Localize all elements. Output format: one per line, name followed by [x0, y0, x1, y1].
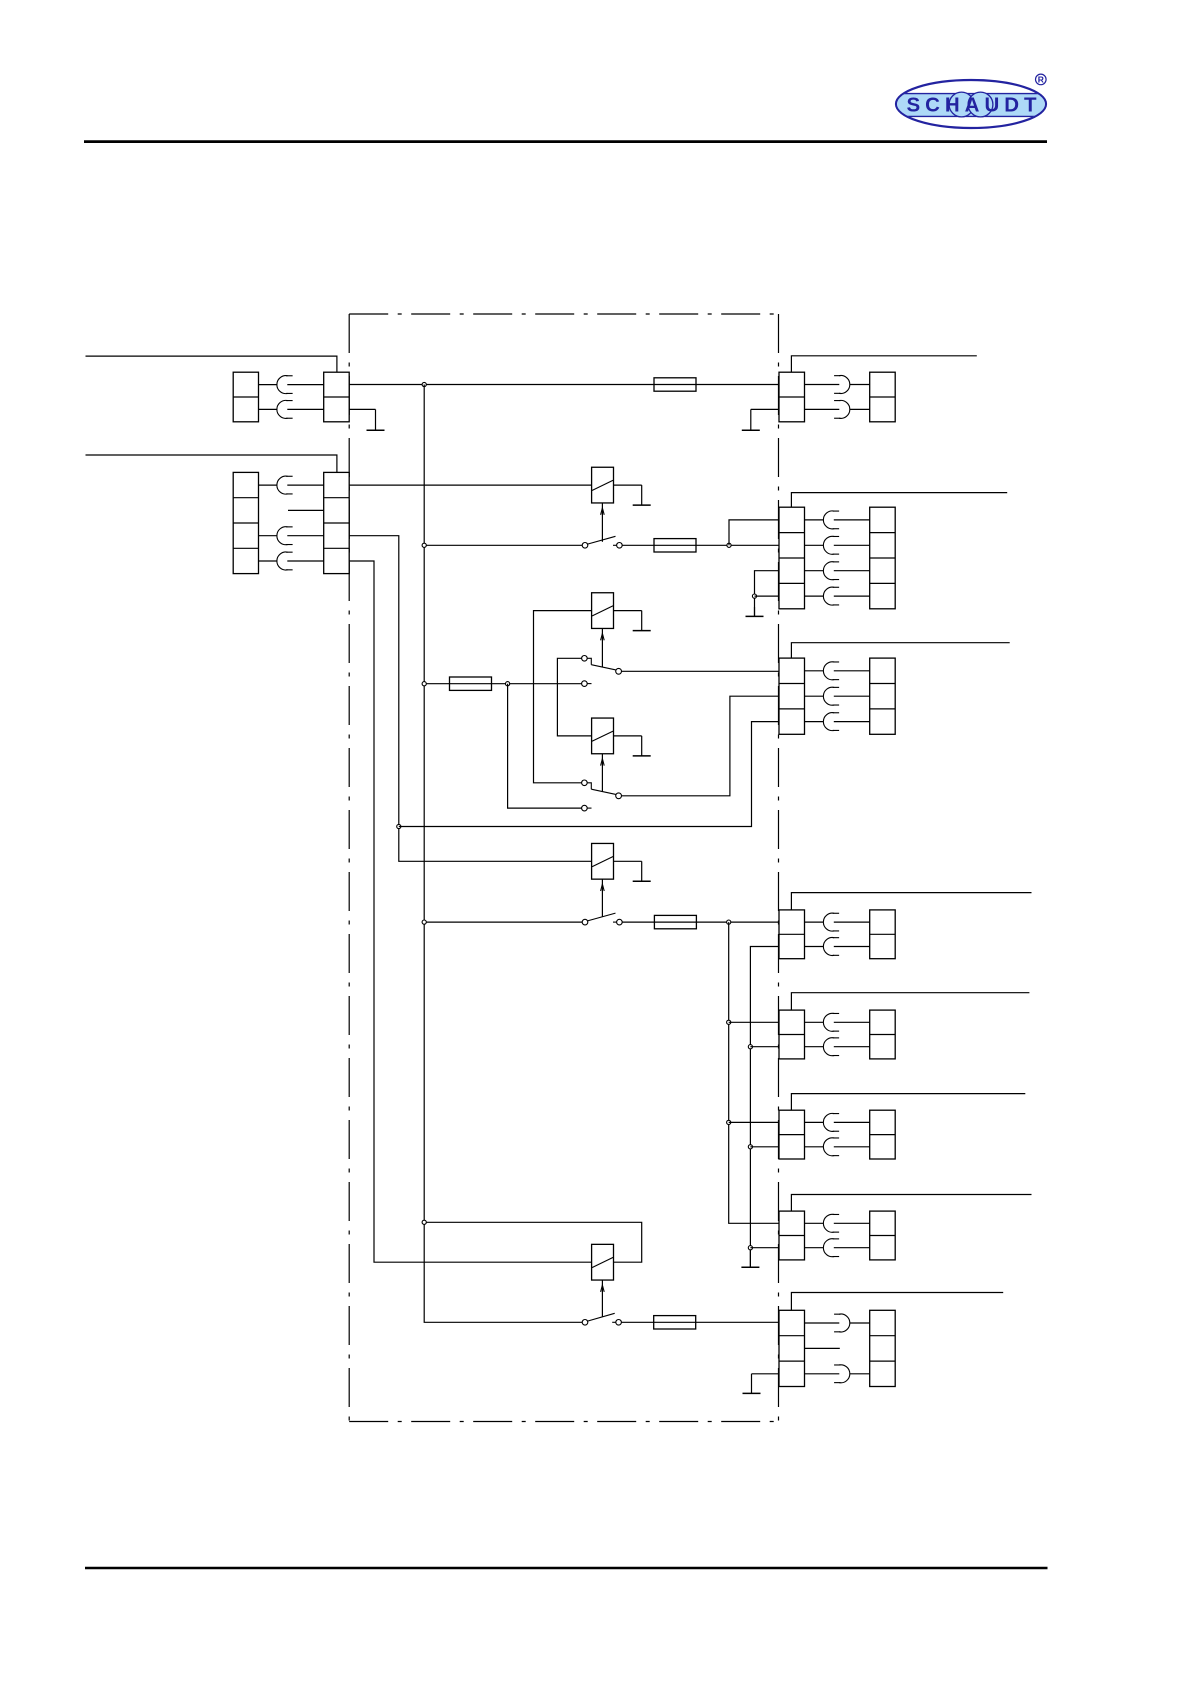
node R2 pin1 tap [727, 543, 731, 547]
wire L2 pin3 riser [349, 536, 591, 862]
connector R5 header on enclosure [779, 1010, 805, 1059]
connector R5 plug housing [870, 1010, 896, 1059]
fuse F4 [654, 915, 696, 928]
changeover switch S3 [582, 780, 622, 811]
wire R7 pin1 lead [805, 1222, 824, 1224]
socket contact R1 pin2 [834, 400, 850, 418]
wire R5 pin1 branch [729, 1021, 779, 1023]
connector R2 plug housing [870, 507, 896, 609]
wire R4 pin2 lead [805, 946, 824, 948]
pin contact R8 pin1 [805, 1322, 840, 1324]
node main bus tap [422, 382, 426, 386]
socket contact L2 pin3 [277, 527, 293, 545]
socket contact R8 pin1 [834, 1314, 850, 1332]
pin contact R5 pin2 [834, 1046, 870, 1048]
wire connector R1 external feed [791, 356, 976, 372]
socket contact R2 pin3 [823, 562, 839, 580]
wire L2 pin3 plug lead [259, 535, 278, 537]
wire distribution riser 2 [750, 947, 779, 1268]
connector R4 plug housing [870, 910, 896, 959]
socket contact R2 pin2 [823, 536, 839, 554]
wire L2 pin4 riser to relay K4 coil [349, 561, 591, 1262]
ground relay K1 [633, 485, 651, 505]
wire R5 pin2 lead [805, 1046, 824, 1048]
socket contact R3 pin3 [823, 713, 839, 731]
wire connector R7 external line [791, 1195, 1031, 1212]
switch S1 [582, 536, 622, 548]
wire K4 coil return to main riser [424, 1222, 642, 1262]
wire relay K2a coil left to switch S3 upper contact [534, 611, 592, 783]
ground relay K3 [633, 861, 651, 881]
wire connector R2 pin1 drop [729, 520, 779, 545]
socket contact L1 pin2 [277, 400, 293, 418]
footer rule [85, 1567, 1048, 1570]
pin contact R4 pin1 [834, 921, 870, 923]
enclosure border bottom (dash-dot) [349, 1421, 778, 1423]
node riser2 R5 tap [748, 1045, 752, 1049]
pin contact R2 pin2 [834, 544, 870, 546]
relay K3 coil [592, 843, 614, 879]
wire R3 pin2 lead [805, 695, 824, 697]
wire L2 pin4 plug lead [259, 560, 278, 562]
wire bus tap to switch S1 [424, 544, 582, 546]
wire R2 pin4 branch [755, 595, 780, 597]
connector R3 header on enclosure [779, 658, 805, 734]
wire connector R4 external line [791, 893, 1031, 910]
svg-text:R: R [1038, 75, 1044, 85]
pin contact L2 pin2 [288, 509, 324, 511]
node riser1 R5 tap [727, 1020, 731, 1024]
wire main riser [424, 385, 582, 1323]
socket contact R7 pin2 [823, 1239, 839, 1257]
fuse F5 [654, 1316, 696, 1329]
wire riser A to connector R3 pin3 [399, 722, 779, 827]
connector R1 plug housing [870, 372, 896, 422]
wire R8 pin1 to plug [850, 1322, 870, 1324]
pin contact R4 pin2 [834, 946, 870, 948]
connector R7 header on enclosure [779, 1211, 805, 1260]
pin contact R3 pin1 [834, 670, 870, 672]
wire R2 pin4 lead [805, 595, 824, 597]
wire S2 common to connector R3 pin1 [622, 670, 780, 672]
wire connector R6 external line [791, 1094, 1025, 1111]
socket contact R3 pin1 [823, 662, 839, 680]
pin contact R6 pin1 [834, 1121, 870, 1123]
wire R1 pin1 to plug [850, 384, 870, 386]
connector R6 plug housing [870, 1110, 896, 1159]
wire R2 pin1 lead [805, 519, 824, 521]
wire R1 pin2 to plug [850, 408, 870, 410]
pin contact R3 pin2 [834, 695, 870, 697]
actuator link K1-S1 [601, 503, 605, 542]
enclosure border top (dash-dot) [349, 313, 778, 315]
wire L1 pin2 plug lead [259, 408, 278, 410]
wire R7 pin2 branch [750, 1247, 779, 1249]
fuse F3 [450, 677, 492, 690]
pin contact L2 pin3 [287, 535, 323, 537]
socket contact R2 pin4 [823, 587, 839, 605]
wire S2 upper contact to relay K2b coil [557, 658, 591, 736]
ground relay K2b [633, 736, 651, 756]
wire R4 pin1 lead [805, 921, 824, 923]
relay K1 coil [592, 467, 614, 503]
wire S5 to connector R8 pin1 [621, 1321, 779, 1323]
connector L2 plug housing [233, 472, 258, 573]
wire R3 pin3 lead [805, 721, 824, 723]
wire R3 pin1 lead [805, 670, 824, 672]
wire K2b coil to ground [614, 735, 642, 737]
socket contact R4 pin2 [823, 938, 839, 956]
node riser A tap [397, 824, 401, 828]
node bus tap S4 [422, 920, 426, 924]
ground relay K2a [633, 611, 651, 631]
pin contact L1 pin1 [287, 384, 323, 386]
pin contact R2 pin3 [834, 570, 870, 572]
ground R2 [746, 607, 764, 616]
wire feed drop to switch S3 contact [508, 684, 582, 808]
wire R2 pin3 to ground riser [755, 571, 780, 617]
node bus tap S1 feed [422, 543, 426, 547]
wire connector R8 external line [791, 1293, 1003, 1311]
socket contact R4 pin1 [823, 913, 839, 931]
socket contact R1 pin1 [834, 376, 850, 394]
header rule [84, 140, 1047, 143]
wire R6 pin1 branch [729, 1121, 779, 1123]
socket contact R7 pin1 [823, 1214, 839, 1232]
pin contact R1 pin2 [805, 408, 840, 410]
relay K2a coil [592, 593, 614, 629]
changeover switch S2 [582, 656, 622, 687]
wire K1 coil to ground [614, 484, 642, 486]
wire L1 pin1 plug lead [259, 384, 278, 386]
relay K2b coil [592, 718, 614, 754]
wire R2 pin3 lead [805, 570, 824, 572]
socket contact R3 pin2 [823, 687, 839, 705]
wire bus tap to switch S4 [424, 921, 582, 923]
wire L1 pin2 to ground [349, 408, 375, 410]
pin contact R5 pin1 [834, 1021, 870, 1023]
connector R8 header on enclosure [779, 1310, 805, 1386]
pin contact R8 pin2 [805, 1347, 840, 1349]
connector R3 plug housing [870, 658, 896, 734]
wire connector R5 external line [791, 993, 1029, 1010]
actuator link K3-S4 [601, 879, 605, 917]
relay K4 coil [592, 1244, 614, 1280]
node R2 pin4 ground tap [752, 594, 756, 598]
pin contact R1 pin1 [805, 384, 840, 386]
wire R6 pin2 branch [750, 1146, 779, 1148]
node S2/S3 feed split [506, 682, 510, 686]
node distribution riser tap [727, 920, 731, 924]
pin contact R2 pin1 [834, 519, 870, 521]
wire R6 pin1 lead [805, 1121, 824, 1123]
socket contact L1 pin1 [277, 376, 293, 394]
node bus tap S2 feed [422, 682, 426, 686]
socket contact R2 pin1 [823, 511, 839, 529]
wire R7 pin2 lead [805, 1247, 824, 1249]
connector R6 header on enclosure [779, 1110, 805, 1159]
wire L2 pin1 to relay K1 coil [349, 484, 591, 486]
fuse F1 [654, 378, 696, 391]
ground riser 2 [741, 1248, 759, 1267]
socket contact R6 pin2 [823, 1138, 839, 1156]
wire L2 pin1 plug lead [259, 484, 278, 486]
wire K2a coil to ground [614, 610, 642, 612]
connector R8 plug housing [870, 1310, 896, 1386]
pin contact R6 pin2 [834, 1146, 870, 1148]
wire bus tap to fuse F3 [424, 683, 581, 685]
wire S3 common to connector R3 pin2 [622, 696, 780, 796]
socket contact R5 pin1 [823, 1013, 839, 1031]
wire R8 pin3 to ground [752, 1373, 780, 1375]
wire R5 pin2 branch [750, 1046, 779, 1048]
wire R8 pin3 to plug [850, 1373, 870, 1375]
connector R2 header on enclosure [779, 507, 805, 609]
socket contact R6 pin1 [823, 1113, 839, 1131]
actuator link K2b-S3 [601, 754, 605, 792]
enclosure border right (dash-dot) [778, 314, 780, 1422]
connector L1 plug housing [233, 372, 258, 422]
node riser2 R6 tap [748, 1145, 752, 1149]
wire distribution riser 1 [729, 922, 779, 1223]
pin contact R7 pin1 [834, 1222, 870, 1224]
connector R1 header on enclosure [779, 372, 805, 422]
wire R2 pin2 lead [805, 544, 824, 546]
actuator link K2a-S2 [601, 629, 605, 668]
wire R6 pin2 lead [805, 1146, 824, 1148]
switch S5 [582, 1313, 621, 1325]
pin contact R3 pin3 [834, 721, 870, 723]
enclosure border left (dash-dot) [348, 314, 350, 1422]
connector R7 plug housing [870, 1211, 896, 1260]
wire connector R2 external line [791, 493, 1007, 508]
pin contact R8 pin3 [805, 1373, 840, 1375]
wire R5 pin1 lead [805, 1021, 824, 1023]
Schaudt logo [894, 74, 1048, 128]
wire main 12V bus L1 to R1 [349, 384, 779, 386]
ground R1 [742, 409, 760, 430]
actuator link K4-S5 [601, 1280, 605, 1317]
node riser1 R6 tap [727, 1120, 731, 1124]
wire K3 coil to ground [614, 860, 642, 862]
ground L1 [367, 409, 385, 430]
socket contact R5 pin2 [823, 1038, 839, 1056]
ground R8 [743, 1374, 761, 1394]
wire S4 to connector R4 pin1 [622, 921, 779, 923]
pin contact R2 pin4 [834, 595, 870, 597]
switch S4 [582, 913, 622, 925]
pin contact L1 pin2 [287, 408, 323, 410]
socket contact L2 pin1 [277, 476, 293, 494]
wire R1 pin2 to ground [751, 408, 779, 410]
connector L1 header on enclosure [324, 372, 350, 422]
pin contact L2 pin4 [287, 560, 323, 562]
node main riser K4 tap [422, 1220, 426, 1224]
pin contact L2 pin1 [287, 484, 323, 486]
socket contact R8 pin3 [834, 1365, 850, 1383]
node riser2 R7 tap [748, 1246, 752, 1250]
fuse F2 [654, 539, 696, 552]
socket contact L2 pin4 [277, 552, 293, 570]
wire aux feed to connector L2 [86, 455, 337, 472]
connector L2 header on enclosure [324, 472, 350, 573]
wire S1 to connector R2 pin2 [622, 544, 779, 546]
wire connector R3 external line [791, 643, 1009, 658]
svg-text:SCHAUDT: SCHAUDT [907, 94, 1038, 117]
pin contact R7 pin2 [834, 1247, 870, 1249]
wire battery feed to connector L1 [86, 356, 337, 372]
connector R4 header on enclosure [779, 910, 805, 959]
